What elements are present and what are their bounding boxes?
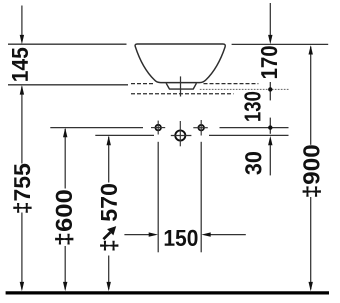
dimension 755 line	[21, 87, 23, 164]
dashed hidden line B	[131, 93, 234, 95]
drain foot	[166, 83, 196, 89]
dashed hidden line A right	[204, 83, 259, 85]
dashed hidden line A left	[131, 83, 155, 85]
dot at 170/130 junction	[268, 87, 272, 91]
label 755	[13, 164, 31, 213]
gray console line	[200, 88, 289, 90]
label 570	[101, 184, 117, 221]
dot at 130/30 junction	[268, 125, 272, 129]
faucet holes line right	[220, 127, 289, 129]
dimension 150 left arrow	[124, 234, 149, 236]
big faucet hole circle	[175, 130, 185, 140]
dimension 145 top arrow	[21, 6, 23, 37]
label 30	[245, 152, 261, 175]
big hole line right	[209, 134, 289, 136]
small hole left circle	[155, 125, 161, 131]
dimension 150 right arrow	[210, 234, 246, 236]
dimension 150 extension line right	[200, 142, 202, 253]
rim guide line right	[232, 43, 329, 45]
dimension 600 line	[64, 129, 66, 189]
dimension 900 line	[310, 47, 312, 145]
label 145	[12, 48, 28, 81]
drain centerline	[180, 76, 182, 96]
dimension 570 line	[108, 137, 110, 183]
floor line	[6, 291, 329, 294]
dimension 145 lower line	[8, 84, 128, 86]
label 150	[165, 230, 198, 246]
dimension 30 arrow	[268, 136, 272, 145]
label 900	[303, 145, 321, 196]
washbasin bowl outline	[135, 44, 225, 83]
faucet holes line left	[50, 127, 143, 129]
dimension 150 extension line left	[157, 142, 159, 253]
label 130	[244, 92, 260, 121]
small hole right circle	[198, 125, 204, 131]
rim guide line left	[8, 43, 127, 45]
label 170	[261, 46, 277, 78]
label 600	[55, 190, 73, 244]
dimension 170 top arrow	[269, 3, 271, 35]
big hole line left	[95, 134, 154, 136]
dim 170/130 connector	[269, 82, 271, 100]
